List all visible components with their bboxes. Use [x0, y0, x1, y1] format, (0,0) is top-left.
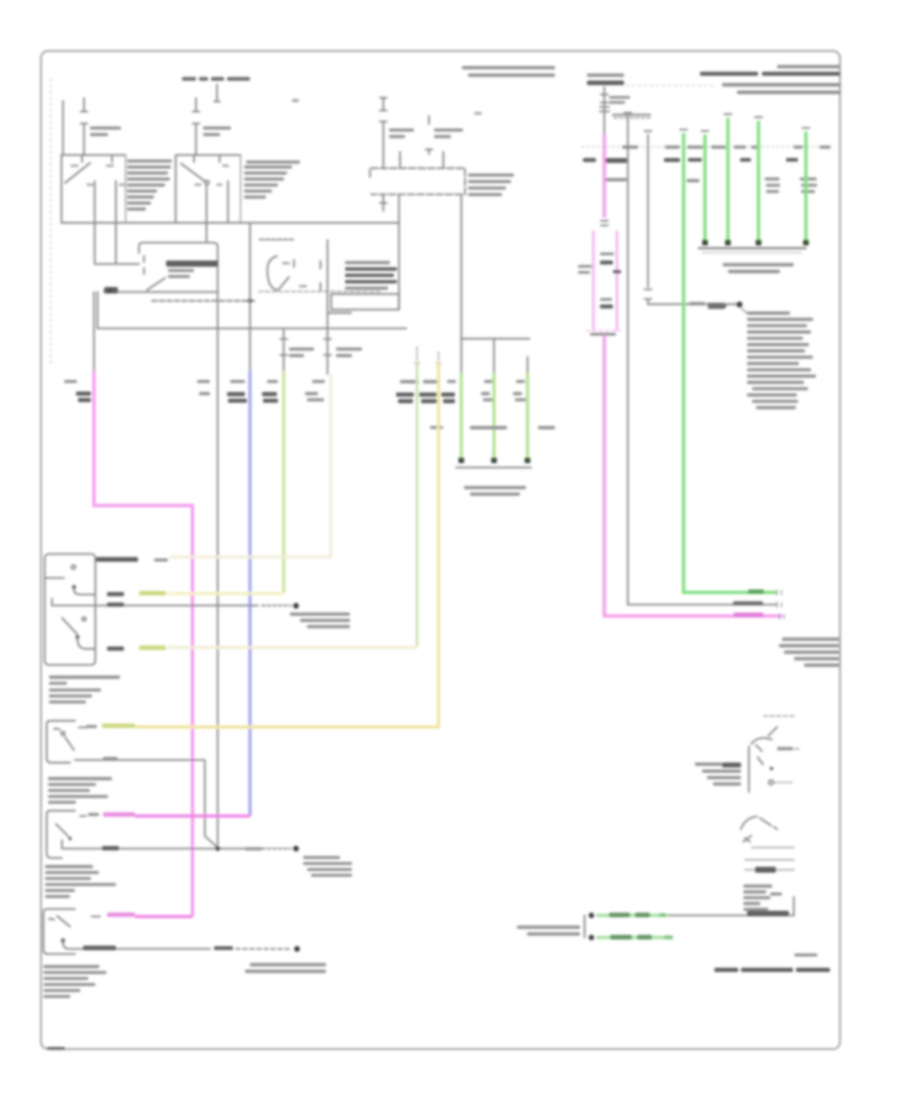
wire bus to blue drop	[249, 223, 251, 371]
relay K1 box	[139, 243, 218, 292]
wire GRN1 label	[447, 380, 456, 383]
switch S2 lever	[181, 164, 205, 182]
SECTION: wire label row + colored verticals left	[64, 362, 555, 917]
SECTION: middle relay band	[94, 194, 530, 845]
SW3 end node	[293, 846, 299, 852]
fuse F3	[380, 98, 387, 168]
washer text left	[517, 926, 580, 929]
LT GREEN color names	[470, 426, 507, 429]
fuse F5 label	[336, 348, 362, 351]
module text block	[747, 312, 790, 315]
wire GRN-A top tick	[680, 129, 687, 131]
wire LTGRN label	[267, 380, 278, 383]
relay K1 coil label dark	[166, 261, 218, 267]
SW3 wire PPL name	[103, 812, 135, 816]
fuse F7	[600, 87, 609, 135]
sensor SW3 box	[47, 811, 75, 858]
ignition text	[695, 763, 722, 766]
splice junction label	[104, 287, 118, 294]
SW3 name text	[45, 865, 93, 868]
switch S2 name text	[246, 161, 300, 164]
SW4 lever	[49, 916, 70, 927]
SW1 divider	[45, 577, 64, 579]
wire feed left	[62, 101, 64, 155]
pin stubs into C-big	[400, 152, 443, 168]
switch S1 pin labels	[71, 165, 79, 167]
wire GRN2 label	[484, 380, 493, 383]
X1 labels	[600, 253, 614, 256]
sensor SW4 box	[43, 909, 75, 954]
SECTION: bottom right	[517, 716, 830, 972]
ground text G2	[723, 263, 794, 266]
wire DKBLU label	[230, 380, 245, 383]
motor M1 text	[345, 261, 390, 264]
bracket	[584, 915, 586, 937]
ground bus G2	[698, 247, 807, 249]
fuse F6 label	[289, 348, 314, 351]
wire secondary feed	[115, 194, 117, 264]
switch S1 name text	[127, 160, 172, 163]
comb lines	[752, 847, 795, 849]
SW4 wire PNK run	[135, 915, 193, 918]
wire GRN-A long	[684, 133, 777, 592]
washer row 1 wire	[597, 897, 794, 915]
fuse F7 label	[609, 96, 630, 99]
header text mid	[462, 66, 555, 69]
wire PNK vertical	[94, 371, 193, 917]
ignition dashed pin	[769, 780, 773, 784]
fuse F4	[426, 116, 433, 154]
dash label top	[764, 715, 795, 717]
switch S1 contacts	[82, 155, 116, 194]
label HOT right	[587, 74, 624, 77]
row1 green labels	[609, 913, 630, 918]
switch S2 contacts	[194, 155, 228, 223]
switch S2 pin labels	[222, 165, 229, 167]
tiny node label	[292, 99, 299, 102]
row2 node	[589, 935, 595, 941]
tiny node dot	[474, 112, 482, 115]
ignition dot	[770, 767, 774, 771]
connector stubs pale pair	[417, 347, 439, 360]
ground terminals G2	[702, 240, 708, 246]
SW3 wire PPL run	[135, 814, 250, 817]
fuse F6 wire	[280, 328, 287, 374]
wire GRN1 vertical	[460, 373, 463, 460]
motor M1 pin labels	[282, 262, 290, 264]
dashed box bottom	[259, 291, 382, 293]
SW3 ground run	[62, 848, 258, 850]
tiny pin row	[612, 114, 651, 117]
pin labels row3	[606, 178, 627, 181]
SECTION: top right	[462, 65, 841, 667]
fuse F5 wire	[324, 240, 331, 374]
motor M1 contacts	[294, 260, 321, 291]
washer switch SW2 box	[47, 721, 75, 763]
SW4 wire PNK name	[107, 913, 135, 917]
wire relay output long	[217, 292, 219, 845]
wiper switch SW1 box	[45, 554, 96, 665]
SW2 wire labels	[86, 725, 97, 728]
sub-box pin text	[327, 312, 352, 315]
wire L to bus328	[98, 292, 407, 328]
wire GRY2 top tick	[624, 112, 631, 114]
SW1 lever	[62, 618, 77, 634]
green bus T	[461, 339, 529, 373]
SW3 ground labels	[102, 846, 119, 850]
row2 green labels	[610, 935, 632, 940]
junction node J2	[215, 846, 220, 851]
lever sym 2	[741, 817, 777, 830]
wire PNK2 name	[734, 613, 764, 618]
pin labels row1	[622, 146, 638, 149]
wire LGRN2 label	[400, 380, 419, 383]
row1 node	[589, 913, 595, 919]
connector C-big text	[468, 174, 514, 177]
module text	[743, 885, 772, 888]
wire4 label	[107, 647, 124, 651]
wire GRN-A name	[748, 589, 764, 593]
BCM text right	[782, 638, 839, 641]
comb dark label	[755, 867, 776, 873]
SW4 ground run	[63, 943, 210, 949]
SW3 wire PPL tick	[80, 815, 86, 817]
wire GRY2 name	[733, 601, 763, 605]
SW4 name text	[43, 965, 99, 968]
motor M1 dashed top	[260, 239, 294, 241]
wire drop to green bus	[460, 194, 462, 373]
switch S1 lever	[65, 163, 90, 183]
SW1 name text	[49, 676, 120, 679]
SW1 exit curve b	[74, 589, 95, 595]
ignition sym lever	[768, 727, 777, 736]
wire hot stub	[214, 85, 220, 102]
switch S2 box	[176, 154, 241, 156]
wire GRN-B	[703, 135, 706, 244]
SW4 wire PNK tick	[92, 916, 100, 918]
connector dashed line C2	[582, 146, 830, 148]
switch S1 box	[62, 155, 126, 223]
wire GRY2	[628, 116, 777, 604]
wire PNK label	[64, 380, 77, 383]
wire drop to mid box	[398, 194, 400, 309]
pin labels row2 dark	[583, 158, 596, 162]
stub below C-big	[380, 194, 387, 211]
node dot	[737, 302, 743, 308]
SW1 contact a	[72, 565, 76, 569]
wire PNK2 upper	[603, 135, 606, 218]
wire3 splice run	[52, 599, 258, 606]
wire DKBLU vertical	[248, 371, 251, 816]
inline connector X1 pink box	[593, 230, 617, 331]
wire BLK3	[648, 135, 739, 305]
wire YEL label	[423, 380, 439, 383]
SECTION: left component column	[43, 554, 352, 1050]
SW4 ground labels	[83, 946, 116, 951]
washer row 2 wire	[597, 937, 662, 939]
title line	[714, 968, 738, 972]
washer row1 green	[597, 914, 668, 917]
wire TAN pale vertical	[170, 374, 331, 557]
fuse F2 value label	[203, 127, 231, 130]
wire GRN2 vertical	[492, 373, 495, 460]
wire PNK2 lower	[604, 336, 782, 616]
dashed interconnect	[152, 300, 257, 302]
bus main	[62, 222, 400, 224]
SW1 exit curve d	[78, 639, 96, 649]
ignition sym arc	[751, 738, 772, 744]
wire coil feed	[96, 263, 140, 265]
wire LGRN2 vertical to tan run	[416, 362, 419, 647]
connector sub-box	[331, 294, 399, 310]
ignition sym stem	[748, 747, 750, 792]
wire GRN-C	[726, 118, 729, 244]
SW1 contact d	[75, 635, 79, 639]
SW4 end node	[294, 946, 300, 952]
ground terminals G1	[459, 458, 465, 464]
SW3 lever	[56, 824, 68, 836]
SW2 bottom wire	[75, 760, 218, 848]
label HOT AT ALL TIMES	[182, 77, 196, 81]
arrow connector	[708, 303, 727, 309]
ground bracket	[456, 467, 531, 469]
wire YEL vertical	[135, 362, 439, 727]
motor M1 lever	[279, 277, 290, 290]
wire GRN-D	[757, 121, 760, 244]
fuse F3 label	[389, 129, 414, 132]
wire3 label	[107, 603, 124, 607]
fuse F1 value label	[90, 127, 121, 130]
wire S2 output	[206, 185, 208, 243]
fuse F1	[81, 98, 88, 155]
SW2 tick	[79, 727, 86, 729]
fuse F2	[193, 98, 200, 155]
SW2 name text	[48, 777, 112, 780]
SW2 lever	[54, 728, 74, 750]
connector break	[601, 221, 608, 226]
row1 dark wire label	[747, 911, 789, 916]
small label	[794, 954, 817, 957]
wire S1 output	[94, 194, 96, 264]
junction node	[248, 299, 253, 304]
relay K1 bottom edge	[104, 291, 218, 293]
dashed margin line	[50, 79, 52, 365]
header text right	[777, 65, 840, 68]
ignition pin label	[777, 747, 793, 750]
motor M1 body arc	[267, 256, 277, 290]
frame corner label	[47, 1047, 65, 1050]
SW1 contact b	[72, 585, 76, 589]
connector C-big box	[370, 168, 465, 194]
wire3 end node	[293, 603, 299, 609]
wire4 color name TAN	[139, 646, 166, 650]
wire GRN-E	[804, 132, 807, 244]
end ticks triple runs	[777, 590, 784, 620]
ground text	[464, 486, 526, 489]
dash stub	[614, 117, 651, 119]
dash leader	[626, 85, 716, 87]
splice text right	[250, 963, 326, 966]
wire2 label	[107, 592, 124, 596]
ignition sym ticks	[756, 745, 763, 764]
wire GRN3 label	[516, 380, 525, 383]
SW1 contact c	[82, 617, 86, 621]
wire GRN3 vertical	[526, 373, 529, 460]
wire1 label dark	[96, 557, 138, 562]
wire GRY label	[312, 380, 325, 383]
wire2 pale yellow run	[168, 592, 284, 595]
wire2 color name YEL	[139, 591, 166, 595]
relay K1 switch lever	[147, 278, 165, 290]
wire BRN label	[197, 380, 210, 383]
SECTION: top-left	[62, 77, 515, 373]
wire LTGRN vertical	[282, 371, 285, 592]
node text right	[303, 856, 340, 859]
SW4 contact	[61, 938, 65, 942]
fuse F4 label	[434, 129, 463, 132]
wire relay to pink	[93, 292, 95, 371]
wire3 node text	[290, 613, 350, 616]
